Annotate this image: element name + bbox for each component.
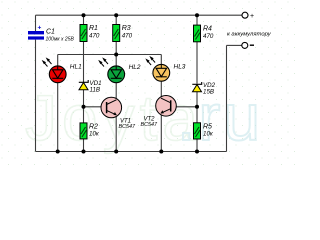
node bottom VT2 emitter [159, 150, 163, 154]
wire left from top corner to C1 top [35, 15, 37, 31]
node bottom R2 [82, 150, 86, 154]
zener diode VD2 [192, 82, 215, 95]
wire HL2 cathode to VT1 collector [115, 83, 117, 100]
wire VT1 base [84, 106, 107, 108]
wire C1 bottom to bottom-left corner [35, 40, 37, 152]
svg-text:+: + [38, 24, 42, 31]
wire HL1 top lead [57, 55, 59, 67]
svg-text:R3: R3 [122, 25, 131, 32]
node top R4 [195, 13, 199, 17]
wire to minus terminal [227, 44, 242, 46]
resistor R3 [113, 25, 133, 42]
svg-text:BC547: BC547 [119, 124, 136, 130]
wire HL3 top lead [160, 55, 162, 65]
svg-text:R4: R4 [203, 26, 212, 33]
resistor R4 [194, 25, 214, 42]
terminal minus [242, 42, 254, 48]
svg-text:HL2: HL2 [129, 64, 141, 71]
wire R3 bottom to HL2 [115, 42, 117, 67]
transistor VT1 [101, 97, 136, 130]
svg-text:R2: R2 [89, 123, 98, 130]
wire R4 top lead [196, 15, 198, 25]
wire right side [226, 45, 228, 151]
node bottom VT1 emitter [114, 150, 118, 154]
wire bottom bus [36, 151, 227, 153]
node VD2-VT2 base [195, 105, 199, 109]
node bottom HL1 [56, 150, 60, 154]
svg-text:R5: R5 [203, 123, 212, 130]
svg-text:BC547: BC547 [141, 122, 158, 128]
node LED bus / HL2 [114, 53, 118, 57]
svg-text:+: + [250, 13, 254, 20]
svg-text:15В: 15В [203, 88, 214, 95]
wire HL3 cathode to VT2 collector [160, 81, 162, 98]
svg-text:HL3: HL3 [174, 64, 186, 71]
transistor VT2 [141, 96, 177, 128]
wire R5 bottom lead [196, 139, 198, 152]
LED HL1 [42, 57, 82, 82]
watermark Joyta [25, 80, 263, 154]
wire VT1 emitter to bottom bus [115, 115, 117, 152]
svg-text:470: 470 [122, 32, 133, 39]
wire VT2 base [171, 106, 197, 108]
wire LED bus horizontal [58, 54, 162, 56]
node top R3 [114, 13, 118, 17]
node bottom R5 [195, 150, 199, 154]
wire R1 bottom to VD1 [83, 42, 85, 83]
resistor R1 [80, 25, 100, 42]
capacitor C1 [28, 24, 74, 42]
wire VD1 anode to node B1 [83, 90, 85, 123]
svg-text:11В: 11В [90, 86, 101, 93]
resistor R5 [194, 123, 214, 139]
svg-text:470: 470 [203, 33, 214, 40]
wire HL1 cathode to bottom bus [57, 83, 59, 152]
svg-text:470: 470 [89, 32, 100, 39]
svg-text:10к: 10к [203, 131, 214, 138]
wire VT2 emitter to bottom bus [160, 113, 162, 152]
svg-text:HL1: HL1 [70, 63, 82, 70]
wire R3 top lead [115, 15, 117, 24]
svg-text:к аккумулятору: к аккумулятору [227, 32, 272, 38]
svg-text:100мк x 25В: 100мк x 25В [46, 36, 75, 42]
node VD1-VT1 base [82, 105, 86, 109]
LED HL2 [98, 57, 141, 82]
wire VD2 anode to node B2 [196, 92, 198, 123]
LED HL3 [145, 56, 186, 81]
zener diode VD1 [79, 80, 102, 93]
node top R1 [82, 13, 86, 17]
terminal plus [242, 12, 254, 20]
wire R4 bottom to VD2 [196, 42, 198, 84]
resistor R2 [80, 123, 100, 139]
wire R1 top lead [83, 15, 85, 24]
wire top bus [36, 14, 243, 16]
svg-text:10к: 10к [89, 131, 100, 138]
svg-text:C1: C1 [46, 29, 55, 36]
svg-text:.ru: .ru [177, 80, 263, 154]
svg-text:R1: R1 [89, 25, 98, 32]
wire R2 bottom lead [83, 139, 85, 152]
